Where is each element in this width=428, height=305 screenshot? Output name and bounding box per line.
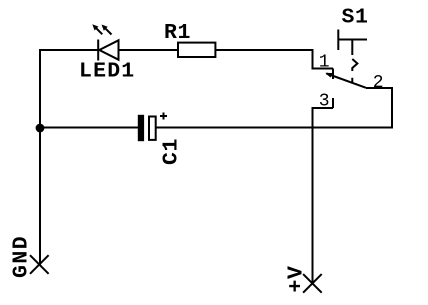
svg-text:R1: R1 xyxy=(164,21,191,45)
wire middle horizontal (junction to capacitor C1) xyxy=(40,127,138,129)
resistor R1 xyxy=(178,43,215,57)
wire resistor R1 to switch step xyxy=(217,49,313,51)
wire right vertical (switch pin 2 down to middle wire) xyxy=(391,88,393,128)
GND terminal X xyxy=(30,255,49,274)
svg-text:S1: S1 xyxy=(342,5,369,29)
svg-text:3: 3 xyxy=(319,92,330,112)
svg-text:GND: GND xyxy=(10,235,34,278)
capacitor C1 positive plate (hollow) xyxy=(149,117,156,140)
LED light arrow 2 xyxy=(102,25,112,35)
junction node (left rail / middle wire) xyxy=(36,124,45,133)
LED light arrow 1 xyxy=(92,24,102,34)
svg-text:LED1: LED1 xyxy=(79,59,135,83)
switch S1 lever xyxy=(327,74,367,88)
switch S1 actuator button cap xyxy=(338,30,367,56)
switch S1 spring contact tick xyxy=(351,78,353,82)
capacitor C1 plus sign xyxy=(160,113,167,120)
wire capacitor C1 to right vertical xyxy=(157,127,393,129)
switch S1 spring squiggle xyxy=(352,59,357,71)
svg-text:C1: C1 xyxy=(160,138,184,165)
wire top-left horizontal (left rail to LED) xyxy=(40,49,97,51)
svg-text:1: 1 xyxy=(319,53,330,73)
switch S1 pin 2 stub xyxy=(366,87,392,89)
svg-text:2: 2 xyxy=(373,73,384,93)
switch S1 pin 3 stub xyxy=(313,98,334,108)
LED LED1 xyxy=(98,40,118,61)
wire step down to switch pin 1 xyxy=(312,50,314,69)
svg-text:+V: +V xyxy=(285,265,309,292)
+V terminal X xyxy=(303,274,322,293)
switch S1 pin 1 stub xyxy=(313,69,334,80)
capacitor C1 negative plate (filled) xyxy=(138,115,144,141)
wire LED to resistor R1 xyxy=(119,49,178,51)
wire left vertical rail xyxy=(39,50,41,265)
wire +V vertical (switch pin 3 down to +V terminal) xyxy=(312,108,314,283)
switch S1 lever arrowhead xyxy=(325,73,332,78)
